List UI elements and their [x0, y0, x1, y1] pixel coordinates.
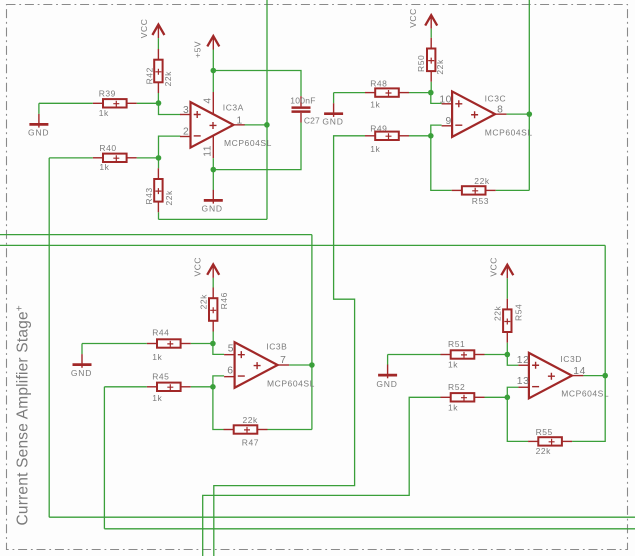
wire net IC3A-OUT vertical from top edge [266, 0, 268, 219]
wire pin 11 to ground [212, 158, 214, 190]
wire junction to IC3A pin 2 [159, 136, 181, 158]
wire net R45-IN vertical [103, 387, 105, 529]
junction IC3C output [527, 111, 533, 117]
resistor R45 [147, 383, 191, 391]
svg-text:MCP604SL: MCP604SL [485, 127, 533, 137]
VCC symbol (IC3D) [501, 265, 513, 279]
IC3A pin 11 lead [212, 136, 214, 158]
svg-text:IC3A: IC3A [223, 103, 244, 113]
junction R45/R47/pin6 [210, 384, 216, 390]
resistor R43 [154, 168, 162, 212]
svg-text:22k: 22k [536, 446, 552, 456]
svg-text:GND: GND [28, 127, 49, 137]
wire net IC3B-OUT vertical [311, 235, 313, 430]
op-amp IC3A [191, 102, 234, 148]
wire to ground stub [333, 93, 335, 104]
wire R45 to junction [191, 386, 213, 388]
svg-text:R45: R45 [152, 372, 169, 382]
svg-text:Current Sense Amplifier Stage+: Current Sense Amplifier Stage+ [14, 305, 31, 525]
svg-text:1k: 1k [448, 359, 458, 369]
wire R44 to junction [191, 343, 213, 345]
svg-text:1k: 1k [152, 393, 162, 403]
wire to IC3A pin 4 [212, 71, 214, 93]
svg-text:VCC: VCC [408, 8, 418, 28]
svg-text:12: 12 [517, 355, 530, 366]
svg-text:R42: R42 [144, 67, 154, 84]
resistor R42 [154, 49, 162, 93]
resistor R53 [452, 186, 496, 194]
svg-text:MCP604SL: MCP604SL [267, 378, 315, 388]
wire R52 to junction [485, 396, 508, 398]
op-amp IC3C [452, 91, 495, 136]
wire junction to IC3A pin 3 [159, 103, 181, 114]
svg-text:2: 2 [183, 127, 189, 138]
svg-text:3: 3 [183, 105, 189, 116]
wire VCC to R42 [157, 38, 159, 49]
wire junction to IC3C pin 10 [431, 93, 442, 104]
ground (IC3A pin 11) [204, 190, 223, 204]
svg-text:R43: R43 [144, 187, 154, 204]
svg-text:R55: R55 [536, 427, 553, 437]
svg-text:R54: R54 [513, 304, 523, 321]
svg-text:22k: 22k [493, 305, 503, 321]
IC3A input pin leads [180, 115, 245, 137]
wire VCC to R54 [506, 278, 508, 298]
wire junction to IC3C pin 9 [431, 125, 442, 136]
ground (R48 input) [324, 103, 343, 117]
junction R39/R42/pin3 [156, 100, 162, 106]
wire C27 bottom to pin11/GND junction [213, 123, 301, 170]
wire to ground stub [387, 355, 389, 366]
VCC symbol (IC3B) [207, 264, 219, 278]
wire R40 to junction [137, 157, 159, 159]
svg-text:1k: 1k [448, 402, 458, 412]
op-amp IC3B [235, 342, 278, 388]
svg-text:10: 10 [439, 94, 452, 105]
wire net R49-IN to bottom edge [214, 136, 365, 556]
resistor R40 [93, 154, 137, 162]
junction pin11/C27 [211, 167, 217, 173]
wire pin8 to output junction [507, 113, 530, 115]
svg-text:R48: R48 [370, 79, 387, 89]
ground (R44 input) [73, 354, 92, 368]
junction IC3D output [602, 373, 608, 379]
wire left net to R45 [104, 386, 146, 388]
svg-text:R50: R50 [416, 55, 426, 72]
svg-text:22k: 22k [435, 59, 445, 75]
resistor R50 [427, 38, 435, 82]
svg-text:MCP604SL: MCP604SL [224, 138, 272, 148]
svg-text:R51: R51 [448, 339, 465, 349]
capacitor C27 [292, 96, 311, 122]
wire net IC3D-OUT vertical [604, 245, 606, 375]
ground (R39 input) [29, 114, 48, 128]
wire net IC3D-OUT horizontal from left edge [0, 244, 605, 246]
svg-text:100nF: 100nF [290, 95, 316, 105]
svg-text:C27: C27 [304, 116, 320, 126]
wire junction to IC3B pin 5 [213, 344, 224, 355]
svg-text:GND: GND [376, 379, 397, 389]
svg-text:22k: 22k [163, 71, 173, 87]
wire R55 to output junction [572, 376, 605, 442]
svg-text:GND: GND [71, 368, 92, 378]
svg-text:1k: 1k [99, 162, 109, 172]
svg-text:1k: 1k [99, 108, 109, 118]
svg-text:9: 9 [446, 116, 452, 127]
wire R48 to junction [409, 92, 431, 94]
IC3D input pin leads [518, 365, 583, 387]
wire pin7 to output junction [289, 364, 312, 366]
svg-text:MCP604SL: MCP604SL [561, 388, 609, 398]
resistor R55 [528, 437, 572, 445]
wire net R52-IN to bottom edge [203, 397, 441, 556]
svg-text:IC3B: IC3B [266, 342, 287, 352]
wire left net to R40 [49, 157, 93, 159]
svg-text:R46: R46 [219, 292, 229, 309]
svg-text:1k: 1k [370, 144, 380, 154]
junction R40/R43/pin2 [156, 155, 162, 161]
svg-text:13: 13 [517, 376, 530, 387]
wire to ground stub [81, 344, 83, 355]
svg-text:VCC: VCC [489, 257, 499, 277]
svg-text:1k: 1k [370, 99, 380, 109]
svg-text:1k: 1k [152, 352, 162, 362]
ground (R51 input) [378, 365, 397, 379]
VCC symbol (IC3A) [152, 25, 164, 38]
wire GND to R48 [334, 92, 365, 94]
wire to ground stub [38, 103, 40, 114]
wire GND to R39 [39, 102, 93, 104]
svg-text:IC3C: IC3C [485, 93, 507, 103]
svg-text:GND: GND [202, 204, 223, 214]
wire net R45-IN bottom horizontal to right edge [104, 528, 635, 530]
wire R47 to output vertical [268, 429, 312, 431]
svg-text:R44: R44 [152, 327, 169, 337]
wire junction to R43 [158, 158, 160, 168]
wire net IC3C-OUT vertical from top edge [528, 0, 530, 190]
svg-text:11: 11 [203, 145, 214, 157]
junction R52/R55/pin13 [505, 395, 511, 401]
svg-text:22k: 22k [243, 415, 259, 425]
junction +5V rail [211, 68, 217, 74]
wire +5V to junction [212, 50, 214, 71]
svg-text:R40: R40 [99, 143, 116, 153]
svg-text:R39: R39 [99, 88, 116, 98]
resistor R48 [365, 88, 409, 96]
wire GND to R51 [388, 354, 441, 356]
IC3C input pin leads [442, 104, 507, 126]
resistor R46 [209, 288, 217, 332]
junction R51/R54/pin12 [505, 352, 511, 358]
wire GND to R44 [82, 343, 147, 345]
IC3A pin 4 lead [212, 92, 214, 114]
wire VCC to R50 [430, 29, 432, 38]
junction IC3A output [264, 122, 270, 128]
svg-text:R52: R52 [448, 382, 465, 392]
wire R43 to output net [158, 212, 160, 219]
svg-text:7: 7 [280, 355, 286, 366]
wire pin1 to output junction [245, 124, 267, 126]
junction IC3B output [309, 362, 315, 368]
svg-text:8: 8 [497, 105, 503, 116]
resistor R49 [365, 132, 409, 140]
wire pin6 junction down to R47 [213, 387, 224, 430]
op-amp IC3D [529, 353, 572, 399]
wire R50 to junction [430, 82, 432, 93]
svg-text:+5V: +5V [192, 41, 202, 58]
VCC symbol (IC3C) [425, 15, 437, 29]
wire R46 to junction [212, 332, 214, 344]
wire net IC3B-OUT horizontal from left edge [0, 234, 312, 236]
wire junction to IC3B pin 6 [213, 376, 224, 387]
svg-text:R53: R53 [472, 196, 489, 206]
wire R49 to junction [409, 135, 431, 137]
wire R39 to junction [137, 102, 159, 104]
svg-text:VCC: VCC [139, 19, 149, 39]
wire net IC3A-OUT to R43 bottom [159, 218, 268, 220]
svg-text:R47: R47 [242, 437, 259, 447]
IC3B input pin leads [224, 355, 289, 377]
svg-text:22k: 22k [164, 190, 174, 206]
svg-text:VCC: VCC [193, 257, 203, 277]
resistor R52 [441, 393, 485, 401]
resistor R47 [224, 425, 268, 433]
wire junction to IC3D pin 13 [507, 387, 518, 397]
svg-text:22k: 22k [474, 176, 490, 186]
wire R53 to output vertical [496, 189, 530, 191]
wire net R40-IN vertical left [48, 158, 50, 517]
svg-text:IC3D: IC3D [560, 354, 582, 364]
wire net R40-IN bottom horizontal to right edge [49, 516, 635, 518]
svg-text:22k: 22k [199, 294, 209, 310]
resistor R51 [441, 350, 485, 358]
resistor R39 [93, 99, 137, 107]
svg-text:4: 4 [202, 97, 213, 103]
wire pin9 junction down to R53 [431, 136, 452, 191]
wire pin13 junction down to R55 [507, 397, 528, 441]
+5V symbol [207, 36, 219, 50]
wire R54 to junction [506, 343, 508, 355]
wire +5V rail to C27 top [213, 71, 301, 97]
junction R44/R46/pin5 [210, 341, 216, 347]
svg-text:5: 5 [228, 344, 234, 355]
wire VCC to R46 [212, 278, 214, 288]
wire junction to IC3D pin 12 [507, 355, 518, 366]
wire R42 to node A+ [157, 93, 159, 103]
resistor R44 [147, 339, 191, 347]
wire R51 to junction [485, 354, 508, 356]
resistor R54 [503, 299, 511, 343]
svg-text:6: 6 [227, 365, 233, 376]
svg-text:GND: GND [322, 117, 343, 127]
wire pin14 to output junction [583, 375, 605, 377]
junction R49/R53/pin9 [428, 133, 434, 139]
junction R48/R50/pin10 [428, 90, 434, 96]
svg-text:1: 1 [237, 116, 243, 127]
